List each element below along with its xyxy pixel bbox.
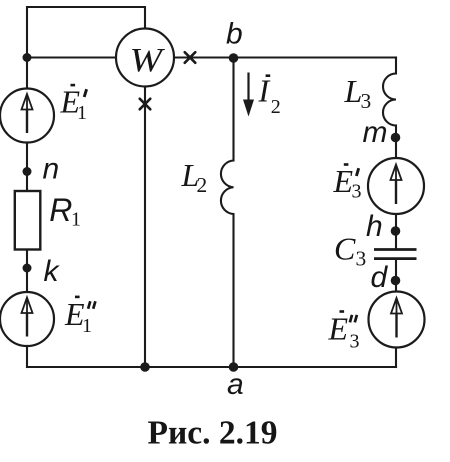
svg-text:C: C xyxy=(334,231,356,267)
svg-text:h: h xyxy=(366,210,383,243)
svg-text:Рис. 2.19: Рис. 2.19 xyxy=(148,414,278,451)
wire E'1 to R1 through node n xyxy=(26,143,28,192)
svg-text:n: n xyxy=(43,153,60,186)
svg-text:E: E xyxy=(328,311,349,347)
junction dot at left rail top xyxy=(23,53,32,62)
svg-text:3: 3 xyxy=(352,181,362,203)
wire L3 to E'3 through node m xyxy=(395,126,397,159)
label L2 xyxy=(181,157,208,197)
wire left rail upper segment into E'1 xyxy=(26,58,28,89)
svg-text:R: R xyxy=(49,192,72,228)
capacitor C3 xyxy=(374,250,417,259)
wire bottom rail xyxy=(27,366,396,368)
wire right rail top segment into L3 xyxy=(395,58,397,74)
terminal mark x at wattmeter right xyxy=(185,52,196,63)
svg-text:3: 3 xyxy=(356,247,367,271)
wire capacitor C3 to E''3 through node d xyxy=(395,259,397,292)
current arrow I2 xyxy=(243,73,254,117)
wire wattmeter right terminal to node b xyxy=(174,56,234,58)
label E'1 xyxy=(60,84,88,125)
label I2 xyxy=(258,73,281,119)
inductor L2 xyxy=(221,161,234,215)
svg-text:W: W xyxy=(130,40,166,78)
wire node b down to L2 xyxy=(232,58,234,161)
svg-text:E: E xyxy=(333,163,354,199)
svg-text:m: m xyxy=(363,116,388,149)
node n xyxy=(23,167,32,176)
wire R1 to E''1 through node k xyxy=(26,250,28,293)
svg-text:2: 2 xyxy=(271,96,281,118)
wire E''3 bottom to bottom rail xyxy=(395,348,397,368)
wire top-left loop from left rail to wattmeter top xyxy=(27,7,145,58)
source E'1 xyxy=(0,89,54,143)
svg-text:b: b xyxy=(226,18,243,51)
node k xyxy=(23,264,32,273)
svg-text:a: a xyxy=(227,368,244,401)
label E''3 xyxy=(328,310,360,352)
node h xyxy=(391,226,401,236)
label R1 xyxy=(49,192,81,231)
svg-text:I: I xyxy=(258,73,271,109)
svg-text:3: 3 xyxy=(350,331,360,353)
terminal mark x at wattmeter bottom xyxy=(140,99,151,110)
source E''3 xyxy=(369,292,425,348)
svg-text:1: 1 xyxy=(71,209,81,231)
svg-text:L: L xyxy=(344,73,363,109)
wire left rail horizontal to wattmeter left terminal xyxy=(27,56,116,58)
svg-text:1: 1 xyxy=(77,102,87,124)
wire E''1 bottom to bottom rail xyxy=(26,346,28,367)
wire E'3 to capacitor C3 through node h xyxy=(395,214,397,250)
svg-text:1: 1 xyxy=(82,315,92,337)
label C3 xyxy=(334,231,366,271)
inductor L3 xyxy=(383,74,396,126)
wattmeter W xyxy=(116,29,174,87)
junction dot wattmeter branch at bottom rail xyxy=(140,362,150,372)
label L3 xyxy=(344,73,372,113)
label E''1 xyxy=(64,296,95,337)
svg-text:k: k xyxy=(44,255,61,288)
node b xyxy=(229,53,239,63)
node d xyxy=(391,276,401,286)
resistor R1 xyxy=(15,191,41,250)
source E'3 xyxy=(368,158,424,214)
svg-text:d: d xyxy=(371,261,389,294)
source E''1 xyxy=(0,292,54,346)
node a xyxy=(229,362,239,372)
svg-text:2: 2 xyxy=(197,173,208,197)
svg-text:3: 3 xyxy=(361,89,372,113)
wire node b to top-right corner xyxy=(234,56,397,58)
wire wattmeter voltage branch down to bottom rail xyxy=(144,87,146,368)
label E'3 xyxy=(333,163,362,203)
wire L2 to node a xyxy=(232,214,234,367)
node m xyxy=(391,133,401,143)
